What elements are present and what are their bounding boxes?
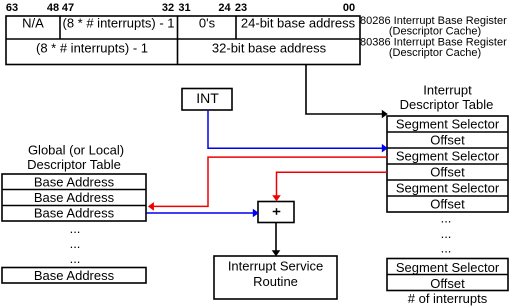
svg-text:47: 47 [62, 2, 74, 14]
svg-text:...: ... [70, 251, 81, 266]
svg-text:INT: INT [196, 90, 219, 106]
svg-text:Offset: Offset [430, 276, 465, 291]
svg-text:0's: 0's [199, 16, 216, 31]
svg-text:32-bit base address: 32-bit base address [212, 41, 327, 56]
svg-text:Base Address: Base Address [34, 206, 115, 221]
svg-text:Interrupt: Interrupt [423, 83, 472, 98]
svg-text:63: 63 [6, 2, 18, 14]
svg-text:Segment Selector: Segment Selector [396, 260, 500, 275]
svg-text:# of interrupts: # of interrupts [408, 291, 488, 306]
svg-text:Segment Selector: Segment Selector [396, 149, 500, 164]
svg-text:Base Address: Base Address [34, 190, 115, 205]
svg-text:Global (or Local): Global (or Local) [28, 143, 124, 158]
svg-text:Offset: Offset [430, 133, 465, 148]
svg-text:Base Address: Base Address [34, 268, 115, 283]
svg-text:(8 * # interrupts) - 1: (8 * # interrupts) - 1 [36, 41, 148, 56]
svg-text:24: 24 [218, 2, 231, 14]
svg-text:Segment Selector: Segment Selector [396, 181, 500, 196]
svg-text:31: 31 [178, 2, 190, 14]
svg-text:Interrupt Service: Interrupt Service [228, 258, 323, 273]
svg-text:Descriptor Table: Descriptor Table [27, 157, 121, 172]
svg-text:Descriptor Table: Descriptor Table [400, 97, 494, 112]
svg-text:23: 23 [235, 2, 247, 14]
svg-text:Routine: Routine [253, 274, 298, 289]
svg-text:Offset: Offset [430, 197, 465, 212]
svg-text:00: 00 [343, 2, 355, 14]
svg-text:24-bit base address: 24-bit base address [241, 16, 356, 31]
svg-text:...: ... [70, 236, 81, 251]
svg-text:(8 * # interrupts) - 1: (8 * # interrupts) - 1 [63, 16, 175, 31]
svg-text:...: ... [441, 226, 452, 241]
svg-text:Segment Selector: Segment Selector [396, 117, 500, 132]
svg-text:...: ... [441, 211, 452, 226]
svg-text:Offset: Offset [430, 165, 465, 180]
svg-text:...: ... [441, 241, 452, 256]
svg-text:...: ... [70, 221, 81, 236]
svg-text:Base Address: Base Address [34, 175, 115, 190]
svg-text:48: 48 [47, 2, 59, 14]
svg-text:32: 32 [162, 2, 174, 14]
svg-text:N/A: N/A [22, 16, 44, 31]
svg-text:(Descriptor Cache): (Descriptor Cache) [389, 47, 481, 59]
